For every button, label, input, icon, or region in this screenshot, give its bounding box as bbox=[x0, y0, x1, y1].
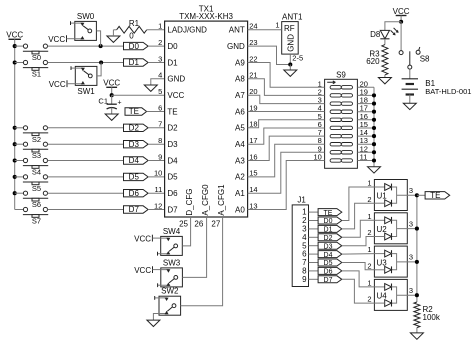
wire bbox=[357, 151, 374, 153]
wire bbox=[409, 95, 411, 104]
node VCC junction bbox=[399, 20, 403, 24]
svg-text:D2: D2 bbox=[167, 124, 178, 133]
net flag D5 bbox=[124, 173, 149, 180]
wire bbox=[248, 128, 325, 144]
svg-text:19: 19 bbox=[249, 103, 257, 112]
svg-text:14: 14 bbox=[249, 185, 257, 194]
wire bbox=[97, 63, 101, 76]
svg-text:13: 13 bbox=[249, 201, 257, 210]
svg-text:D8: D8 bbox=[370, 30, 381, 39]
diode gate U4 bbox=[374, 279, 407, 310]
svg-text:16: 16 bbox=[249, 152, 257, 161]
svg-text:A_CFG0: A_CFG0 bbox=[201, 184, 210, 216]
svg-text:GND: GND bbox=[167, 75, 185, 84]
switch SW0 bbox=[75, 21, 97, 40]
svg-text:D7: D7 bbox=[167, 205, 178, 214]
wire bbox=[309, 278, 319, 280]
svg-text:SW0: SW0 bbox=[77, 12, 95, 21]
svg-text:S7: S7 bbox=[32, 217, 41, 226]
wire bbox=[248, 152, 325, 193]
wire bbox=[309, 245, 319, 247]
svg-text:VCC: VCC bbox=[167, 91, 184, 100]
wire bbox=[342, 220, 375, 237]
diode gate U3 bbox=[374, 246, 407, 277]
net flag D1 (J1) bbox=[318, 225, 342, 232]
net flag D0 bbox=[124, 42, 149, 49]
wire bbox=[148, 62, 165, 64]
svg-text:VCC: VCC bbox=[48, 35, 65, 44]
wire bbox=[357, 127, 374, 129]
wire bbox=[342, 271, 375, 287]
wire bbox=[309, 270, 319, 272]
svg-text:2: 2 bbox=[367, 261, 371, 270]
svg-text:2: 2 bbox=[367, 195, 371, 204]
LED D8 bbox=[380, 30, 389, 38]
svg-text:D1: D1 bbox=[129, 58, 140, 67]
wire bbox=[181, 217, 223, 306]
svg-text:TE: TE bbox=[129, 107, 139, 116]
wire bbox=[289, 54, 291, 64]
svg-text:TXM-XXX-KH3: TXM-XXX-KH3 bbox=[179, 12, 233, 21]
switch S0 bbox=[13, 44, 17, 48]
ground bbox=[284, 70, 297, 76]
wire bbox=[48, 176, 124, 178]
wire bbox=[113, 29, 116, 31]
wire bbox=[48, 192, 124, 194]
svg-text:D5: D5 bbox=[167, 173, 178, 182]
svg-text:11: 11 bbox=[155, 185, 163, 194]
svg-text:U1: U1 bbox=[377, 192, 388, 201]
svg-text:VCC: VCC bbox=[103, 79, 120, 88]
switch SW2 bbox=[159, 296, 181, 315]
svg-text:1: 1 bbox=[367, 212, 371, 221]
net flag TE (output) bbox=[425, 192, 450, 199]
svg-text:D5: D5 bbox=[129, 173, 140, 182]
wire bbox=[248, 95, 325, 103]
wire bbox=[48, 127, 124, 129]
svg-text:A4: A4 bbox=[235, 140, 245, 149]
wire bbox=[48, 143, 124, 145]
battery B1 bbox=[402, 78, 418, 80]
net flag D7 (J1) bbox=[318, 276, 342, 283]
svg-text:A7: A7 bbox=[235, 91, 245, 100]
node D0 junction bbox=[99, 44, 103, 48]
svg-text:U4: U4 bbox=[377, 292, 388, 301]
svg-text:J1: J1 bbox=[297, 196, 306, 205]
svg-text:D3: D3 bbox=[129, 140, 140, 149]
wire bbox=[309, 211, 319, 213]
wire bbox=[48, 45, 124, 47]
svg-text:ANT1: ANT1 bbox=[282, 12, 303, 21]
node D1 junction bbox=[99, 60, 103, 64]
svg-text:9: 9 bbox=[302, 275, 307, 284]
wire bbox=[417, 194, 425, 196]
svg-text:1: 1 bbox=[367, 245, 371, 254]
ground bbox=[368, 167, 381, 173]
svg-text:S2: S2 bbox=[32, 135, 41, 144]
svg-text:SW2: SW2 bbox=[161, 287, 179, 296]
net flag D3 (J1) bbox=[318, 242, 342, 249]
ground bbox=[147, 320, 160, 326]
switch S4 bbox=[13, 158, 17, 162]
svg-text:D6: D6 bbox=[167, 189, 178, 198]
svg-text:A6: A6 bbox=[235, 107, 245, 116]
wire bbox=[309, 262, 319, 264]
svg-text:A2: A2 bbox=[235, 173, 245, 182]
svg-text:3: 3 bbox=[158, 54, 162, 63]
IC U TX1 box bbox=[165, 21, 248, 217]
svg-text:TE: TE bbox=[167, 107, 177, 116]
svg-text:2-5: 2-5 bbox=[292, 54, 303, 63]
svg-text:8: 8 bbox=[158, 136, 162, 145]
svg-text:A1: A1 bbox=[235, 189, 245, 198]
net flag D5 (J1) bbox=[318, 259, 342, 266]
svg-text:6: 6 bbox=[158, 103, 162, 112]
switch S6 bbox=[13, 191, 17, 195]
wire bbox=[309, 253, 319, 255]
svg-text:D3: D3 bbox=[324, 243, 333, 250]
wire bbox=[182, 217, 190, 246]
svg-text:SW3: SW3 bbox=[163, 258, 181, 267]
svg-text:7: 7 bbox=[158, 120, 162, 129]
svg-text:A_CFG1: A_CFG1 bbox=[217, 184, 226, 216]
svg-text:VCC: VCC bbox=[134, 234, 151, 243]
svg-text:1: 1 bbox=[367, 279, 371, 288]
diode gate U2 bbox=[374, 213, 407, 244]
svg-text:D0: D0 bbox=[167, 42, 178, 51]
wire bbox=[416, 195, 418, 302]
svg-text:D2: D2 bbox=[129, 124, 140, 133]
svg-text:2: 2 bbox=[158, 38, 162, 47]
svg-text:TE: TE bbox=[430, 191, 440, 200]
wire bbox=[309, 236, 319, 238]
ground bbox=[403, 103, 416, 109]
svg-text:A3: A3 bbox=[235, 156, 245, 165]
wire bbox=[357, 94, 374, 96]
wire bbox=[148, 160, 165, 162]
wire bbox=[248, 111, 325, 113]
svg-text:RF: RF bbox=[284, 24, 295, 33]
svg-text:17: 17 bbox=[249, 136, 257, 145]
svg-text:15: 15 bbox=[249, 169, 257, 178]
wire bbox=[384, 39, 386, 45]
node S9 bus junctions bbox=[372, 93, 376, 97]
svg-text:C1: C1 bbox=[98, 96, 108, 105]
wire bbox=[342, 263, 375, 270]
capacitor C1 bbox=[111, 95, 113, 104]
svg-text:LADJ/GND: LADJ/GND bbox=[167, 26, 207, 35]
switch SW3 bbox=[161, 268, 183, 287]
svg-text:D7: D7 bbox=[129, 205, 140, 214]
wire bbox=[248, 161, 325, 210]
svg-text:A9: A9 bbox=[235, 58, 245, 67]
wire bbox=[48, 62, 124, 64]
svg-text:SW4: SW4 bbox=[163, 227, 181, 236]
svg-text:S8: S8 bbox=[420, 54, 430, 63]
svg-text:S0: S0 bbox=[32, 53, 41, 62]
switch S2 bbox=[13, 126, 17, 130]
wire bbox=[48, 160, 124, 162]
ground bbox=[144, 85, 157, 91]
svg-text:U2: U2 bbox=[377, 225, 388, 234]
resistor R1 bbox=[117, 26, 147, 33]
wire bbox=[342, 187, 375, 221]
svg-text:R1: R1 bbox=[129, 19, 140, 28]
svg-text:U3: U3 bbox=[377, 258, 388, 267]
svg-text:100k: 100k bbox=[423, 313, 441, 322]
svg-text:3: 3 bbox=[409, 253, 413, 262]
svg-text:BAT-HLD-001: BAT-HLD-001 bbox=[425, 87, 471, 96]
svg-text:D4: D4 bbox=[129, 156, 140, 165]
wire bbox=[248, 136, 325, 160]
wire bbox=[342, 237, 375, 246]
node ANT1 GND junction bbox=[288, 62, 292, 66]
switch S8 bbox=[399, 51, 403, 55]
svg-text:VCC: VCC bbox=[134, 266, 151, 275]
wire bbox=[342, 253, 375, 256]
switch S1 bbox=[13, 60, 17, 64]
wire bbox=[357, 119, 374, 121]
net flag D4 (J1) bbox=[318, 251, 342, 258]
diode gate U1 bbox=[374, 180, 407, 211]
switch S3 bbox=[13, 142, 17, 146]
wire bbox=[248, 46, 291, 64]
wire bbox=[342, 279, 375, 303]
svg-text:24: 24 bbox=[249, 22, 257, 31]
svg-text:620: 620 bbox=[366, 57, 380, 66]
ground bbox=[105, 114, 118, 120]
wire bbox=[112, 94, 165, 96]
svg-text:D6: D6 bbox=[324, 269, 333, 276]
svg-text:3: 3 bbox=[409, 286, 413, 295]
svg-text:S5: S5 bbox=[32, 184, 41, 193]
wire bbox=[289, 65, 291, 71]
wire bbox=[309, 220, 319, 222]
switch SW4 bbox=[161, 236, 183, 255]
svg-text:+: + bbox=[117, 99, 121, 106]
svg-text:TE: TE bbox=[324, 210, 333, 217]
wire bbox=[248, 79, 325, 96]
wire bbox=[111, 87, 113, 95]
switch SW1 bbox=[75, 66, 97, 85]
svg-text:D6: D6 bbox=[129, 189, 140, 198]
wire bbox=[147, 111, 165, 113]
svg-text:D3: D3 bbox=[167, 140, 178, 149]
svg-text:20: 20 bbox=[249, 87, 257, 96]
svg-text:2: 2 bbox=[367, 228, 371, 237]
svg-text:D0: D0 bbox=[129, 42, 140, 51]
resistor R3 bbox=[382, 45, 388, 75]
svg-text:S1: S1 bbox=[32, 70, 41, 79]
svg-text:3: 3 bbox=[409, 186, 413, 195]
svg-text:GND: GND bbox=[227, 42, 245, 51]
svg-text:S9: S9 bbox=[336, 70, 346, 79]
svg-text:D7: D7 bbox=[324, 277, 333, 284]
svg-text:5: 5 bbox=[158, 87, 162, 96]
wire bbox=[248, 120, 325, 128]
wire bbox=[112, 30, 114, 36]
net flag D4 bbox=[124, 157, 149, 164]
net flag D6 bbox=[124, 190, 149, 197]
net flag TE bbox=[125, 108, 147, 115]
svg-text:VCC: VCC bbox=[49, 80, 66, 89]
svg-text:23: 23 bbox=[249, 38, 257, 47]
svg-text:1: 1 bbox=[158, 22, 162, 31]
svg-text:D1: D1 bbox=[324, 227, 333, 234]
svg-text:D4: D4 bbox=[167, 156, 178, 165]
wire bbox=[148, 176, 165, 178]
wire bbox=[342, 203, 375, 229]
svg-text:12: 12 bbox=[154, 201, 162, 210]
wire bbox=[357, 143, 374, 145]
wire bbox=[357, 111, 374, 113]
wire bbox=[96, 31, 100, 46]
svg-text:D_CFG: D_CFG bbox=[185, 188, 194, 215]
svg-text:SW1: SW1 bbox=[77, 87, 95, 96]
wire bbox=[148, 127, 165, 129]
wire bbox=[248, 29, 282, 31]
svg-text:27: 27 bbox=[211, 220, 220, 229]
net flag D2 bbox=[124, 124, 149, 131]
net flag D7 bbox=[124, 206, 149, 213]
svg-text:1: 1 bbox=[367, 179, 371, 188]
DIP switch S9 elements bbox=[330, 86, 341, 89]
wire bbox=[148, 192, 165, 194]
svg-text:25: 25 bbox=[179, 220, 188, 229]
svg-text:9: 9 bbox=[158, 152, 162, 161]
svg-text:3: 3 bbox=[409, 219, 413, 228]
wire bbox=[357, 160, 374, 162]
ground bbox=[107, 36, 120, 42]
node TE bus junctions bbox=[415, 193, 419, 197]
switch S5 bbox=[13, 175, 17, 179]
svg-text:A8: A8 bbox=[235, 75, 245, 84]
wire bbox=[151, 79, 165, 85]
svg-text:26: 26 bbox=[194, 220, 203, 229]
wire bbox=[148, 143, 165, 145]
svg-text:D5: D5 bbox=[324, 260, 333, 267]
wire bbox=[248, 63, 325, 88]
svg-text:VCC: VCC bbox=[393, 7, 410, 16]
net flag D1 bbox=[124, 59, 149, 66]
svg-text:S4: S4 bbox=[32, 168, 41, 177]
wire bbox=[14, 39, 16, 209]
svg-text:18: 18 bbox=[249, 120, 257, 129]
ground bbox=[410, 333, 423, 339]
node VCC/C1 junction bbox=[110, 93, 114, 97]
wire bbox=[384, 75, 386, 78]
wire bbox=[400, 16, 402, 22]
net flag D0 (J1) bbox=[318, 217, 342, 224]
switch S7 bbox=[15, 209, 24, 211]
svg-text:4: 4 bbox=[158, 71, 162, 80]
svg-text:10: 10 bbox=[154, 169, 162, 178]
wire bbox=[357, 135, 374, 137]
wire bbox=[400, 22, 402, 51]
net flag D3 bbox=[124, 141, 149, 148]
wire bbox=[182, 217, 206, 277]
svg-text:VCC: VCC bbox=[6, 31, 23, 40]
resistor R2 bbox=[414, 302, 420, 328]
svg-text:0: 0 bbox=[129, 32, 134, 41]
wire bbox=[309, 228, 319, 230]
svg-text:D4: D4 bbox=[324, 252, 333, 259]
wire bbox=[416, 328, 418, 333]
wire bbox=[357, 86, 374, 88]
net flag TE (J1) bbox=[318, 209, 342, 216]
svg-text:GND: GND bbox=[287, 34, 296, 52]
ground bbox=[378, 78, 391, 84]
wire bbox=[248, 144, 325, 177]
svg-text:A0: A0 bbox=[235, 205, 245, 214]
net flag D2 (J1) bbox=[318, 234, 342, 241]
svg-text:2: 2 bbox=[367, 295, 371, 304]
wire bbox=[357, 103, 374, 105]
svg-text:A5: A5 bbox=[235, 124, 245, 133]
svg-text:S3: S3 bbox=[32, 151, 41, 160]
svg-text:S6: S6 bbox=[32, 200, 41, 209]
wire bbox=[148, 45, 165, 47]
svg-text:21: 21 bbox=[249, 71, 257, 80]
wire bbox=[409, 69, 411, 79]
net flag D6 (J1) bbox=[318, 267, 342, 274]
svg-text:D0: D0 bbox=[324, 218, 333, 225]
wire bbox=[48, 209, 124, 211]
svg-text:22: 22 bbox=[249, 54, 257, 63]
svg-text:1: 1 bbox=[275, 21, 279, 30]
wire bbox=[148, 209, 165, 211]
wire bbox=[385, 22, 401, 31]
wire bbox=[373, 87, 375, 166]
svg-text:D2: D2 bbox=[324, 235, 333, 242]
wire bbox=[153, 314, 159, 321]
svg-text:ANT: ANT bbox=[229, 26, 245, 35]
svg-text:D1: D1 bbox=[167, 58, 178, 67]
